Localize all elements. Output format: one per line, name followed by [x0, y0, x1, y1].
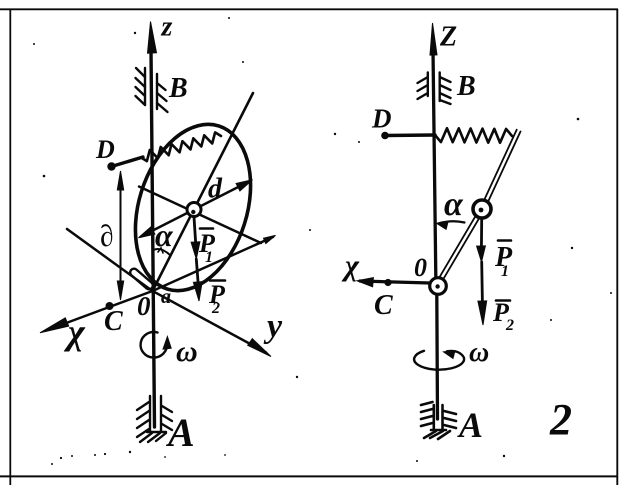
tilted diameter line O to top right [153, 93, 254, 291]
svg-text:0: 0 [414, 253, 427, 282]
svg-text:2: 2 [505, 317, 514, 334]
point D right [381, 132, 389, 140]
bearing B right [418, 73, 451, 105]
svg-text:1: 1 [501, 263, 509, 280]
label P1 right [494, 241, 513, 281]
svg-text:C: C [104, 306, 123, 337]
svg-text:α: α [155, 217, 174, 253]
angle alpha arc left [154, 249, 171, 255]
svg-text:2: 2 [549, 395, 572, 444]
omega arrow right [414, 351, 464, 370]
sleeve on ring near O [134, 273, 149, 286]
svg-text:1: 1 [205, 249, 213, 266]
bearing A right [421, 402, 456, 439]
point C right [384, 279, 391, 286]
x-axis right [360, 281, 430, 283]
force P1 left [194, 217, 196, 248]
dimension line d left [120, 186, 122, 285]
frame lines [0, 8, 618, 10]
point C left [106, 302, 114, 310]
omega arrow left [141, 332, 167, 358]
bearing A left [137, 396, 172, 442]
svg-text:a: a [161, 286, 171, 308]
svg-text:A: A [457, 405, 483, 445]
spring left [141, 132, 221, 161]
svg-text:D: D [371, 104, 392, 134]
svg-text:z: z [161, 12, 173, 43]
second diameter of ring [139, 187, 261, 244]
pivot circle O right [430, 278, 447, 295]
svg-text:ω: ω [176, 335, 198, 368]
spring right [435, 128, 512, 143]
svg-text:B: B [456, 71, 476, 102]
link D to shaft left [112, 157, 144, 167]
label P2 left [208, 280, 226, 317]
svg-text:B: B [168, 73, 188, 104]
d diameter arrow [141, 181, 250, 237]
svg-text:0: 0 [137, 291, 151, 321]
x-axis left [46, 237, 273, 331]
bearing B left [136, 68, 168, 112]
svg-text:d: d [208, 174, 223, 205]
force P1 right [480, 219, 483, 251]
svg-text:A: A [165, 410, 195, 455]
ring hub circle left [187, 203, 201, 217]
z-axis shaft left [151, 50, 155, 427]
link D to shaft right [385, 133, 435, 137]
svg-text:2: 2 [211, 300, 220, 317]
force P2 left [196, 259, 198, 288]
ball on rod right [473, 200, 491, 218]
z-axis shaft right [433, 50, 436, 292]
ring (ellipse) [116, 110, 270, 306]
force P2 right [480, 262, 484, 308]
y-axis left [67, 229, 266, 353]
angle alpha arc right [438, 221, 465, 223]
label P2 right [492, 298, 514, 334]
label P1 left [198, 229, 216, 267]
svg-text:Z: Z [439, 22, 457, 53]
svg-text:D: D [95, 135, 115, 164]
svg-text:C: C [374, 290, 393, 321]
rod right [438, 130, 520, 282]
point D left [107, 162, 115, 170]
svg-text:α: α [444, 186, 464, 223]
svg-text:ω: ω [469, 337, 489, 368]
